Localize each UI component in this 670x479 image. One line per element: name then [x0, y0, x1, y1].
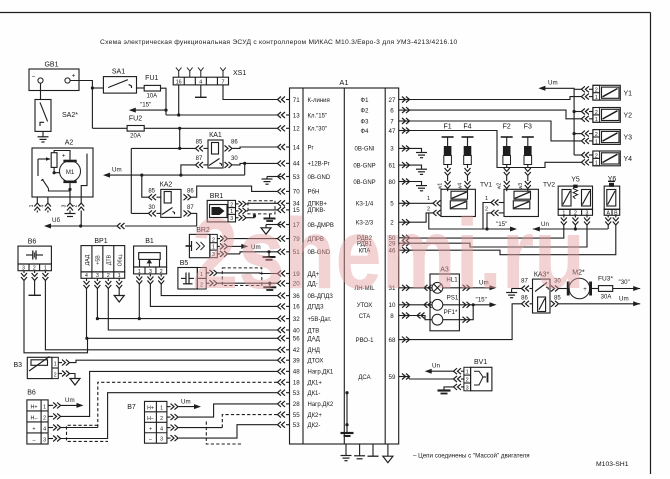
svg-text:3: 3: [466, 385, 469, 391]
BR1 shield dashed box: [248, 201, 275, 214]
wire BV1-1 Un arrow: [431, 370, 454, 372]
B5 shield ground: [269, 283, 271, 287]
Um fuel rail bus: [544, 88, 575, 155]
svg-text:85: 85: [148, 188, 155, 194]
svg-text:0В-GNP: 0В-GNP: [353, 163, 375, 169]
svg-text:ДТВ: ДТВ: [107, 254, 113, 265]
svg-text:В6: В6: [28, 239, 37, 246]
svg-text:0В-GNP: 0В-GNP: [353, 180, 375, 186]
svg-text:2: 2: [54, 372, 57, 378]
wire KZ-2/3 to TV1-2: [409, 213, 433, 222]
B6 pin chevrons: [23, 271, 25, 273]
border frame top line: [0, 12, 651, 14]
A1 right pin rows: labels, numbers and exit chevrons: [353, 97, 409, 381]
svg-text:Un: Un: [432, 363, 440, 370]
spark plug F4: [458, 124, 474, 190]
A2 pin stubs and chevrons: [36, 197, 38, 203]
A1 bottom ground mass bar symbol: [372, 444, 374, 456]
svg-text:40: 40: [293, 327, 300, 334]
svg-text:20А: 20А: [130, 134, 141, 140]
wire B1 pin2 to pin 36: [161, 284, 278, 296]
idle regulator Y5: [558, 186, 592, 209]
svg-text:48: 48: [293, 369, 300, 376]
svg-text:53: 53: [293, 174, 300, 181]
svg-text:4: 4: [199, 79, 202, 85]
ignition switch SA1: [103, 77, 136, 94]
svg-text:Ф3: Ф3: [361, 119, 370, 125]
svg-text:GB1: GB1: [44, 62, 58, 69]
svg-text:1: 1: [595, 117, 598, 123]
wire FU2 to pin 12: [144, 127, 278, 129]
wire B6 pin2 to bar ground: [34, 281, 36, 296]
wire B6 heater Um arrow: [61, 404, 78, 406]
svg-text:2: 2: [43, 415, 46, 421]
wire TV2-2 drop: [487, 213, 491, 229]
svg-text:Y6: Y6: [608, 176, 617, 183]
15 arrow right: [510, 227, 517, 232]
knock sensor B5: [178, 268, 197, 290]
wire KA2-30 drop: [130, 148, 132, 213]
mass ground on 51 wire: [268, 252, 270, 257]
svg-text:Ф1: Ф1: [361, 98, 370, 104]
svg-text:ТV1: ТV1: [480, 182, 492, 189]
svg-text:BV1: BV1: [474, 359, 487, 366]
wire B3-2 to chassis ground: [70, 374, 75, 379]
svg-text:0В-GND: 0В-GND: [308, 175, 331, 181]
node 15 branch: [164, 109, 167, 112]
svg-text:+: +: [62, 154, 66, 160]
svg-text:XS1: XS1: [233, 70, 246, 77]
connector XS1: [173, 77, 228, 85]
svg-text:2shemi.ru: 2shemi.ru: [192, 198, 585, 310]
wire Y5-3 to RDV1 pin 29: [409, 225, 587, 247]
svg-text:SA1: SA1: [112, 69, 125, 76]
svg-text:Н–: Н–: [147, 416, 154, 422]
wire KA2-30 from 30-feed: [131, 212, 148, 214]
svg-text:ДК1+: ДК1+: [308, 381, 323, 387]
B3 chevrons: [58, 362, 62, 364]
svg-text:56: 56: [293, 336, 300, 343]
wire F1 phase to Y1: [409, 97, 581, 100]
svg-text:39: 39: [293, 358, 300, 365]
svg-text:В7: В7: [127, 404, 136, 411]
svg-text:53: 53: [293, 422, 300, 429]
Y5 pin chevrons: [563, 215, 565, 217]
BR1 shield ground: [269, 214, 271, 219]
svg-text:2: 2: [595, 88, 598, 94]
svg-text:Ф4: Ф4: [361, 129, 370, 135]
svg-text:4: 4: [39, 204, 45, 207]
svg-text:– Цепи соединены с "Массой: – Цепи соединены с "Массой" двигателя: [413, 453, 530, 460]
A1 bottom ground earth symbol 1: [345, 444, 347, 456]
B5 shield dashed box: [222, 268, 261, 286]
relay KA1: [208, 140, 223, 168]
switch SA2*: [40, 83, 42, 99]
svg-text:Um: Um: [548, 80, 558, 87]
injector Y3: [581, 130, 632, 146]
controller A1 box: [290, 88, 399, 444]
svg-text:ДТОХ: ДТОХ: [308, 359, 324, 365]
svg-text:85: 85: [196, 140, 203, 146]
svg-text:1: 1: [54, 361, 57, 367]
fuse FU3* 30A: [599, 286, 613, 292]
svg-text:FU1: FU1: [145, 75, 158, 82]
svg-text:12: 12: [293, 126, 300, 133]
wire 87 to earth: [512, 288, 522, 290]
B3 thermistor symbol: [31, 360, 48, 366]
purge valve Y6: [604, 186, 620, 209]
node shield earth on 51 wire: [267, 250, 270, 253]
wire BP1 pin4 DAD down: [86, 289, 88, 339]
wire KZ-1/4 to TV1-1: [409, 202, 433, 204]
svg-text:6: 6: [390, 107, 394, 114]
wire B6 plus to pin 18 (shielded): [61, 427, 67, 429]
svg-text:18: 18: [293, 380, 300, 387]
svg-text:14: 14: [293, 144, 300, 151]
node Um source on pin44 wire: [243, 162, 246, 165]
svg-text:+: +: [149, 426, 152, 432]
svg-text:В1: В1: [145, 238, 154, 245]
wire 30-feed from FU2 line down to KA1-85 / KA2-30: [179, 128, 181, 148]
svg-text:3: 3: [390, 146, 394, 153]
wire Y5-2 to Un line: [574, 225, 576, 229]
wire B5-1 to pin 19: [222, 272, 278, 275]
svg-text:РбН: РбН: [308, 190, 320, 196]
svg-text:РВО-1: РВО-1: [356, 338, 374, 344]
crankshaft sensor BR1: [207, 200, 235, 222]
wire pin 53 to earth: [267, 176, 281, 178]
svg-text:ДК2-: ДК2-: [308, 423, 321, 429]
svg-text:ДТВ: ДТВ: [308, 328, 320, 334]
wire BR2-3 to pin 51: [228, 253, 240, 255]
wire HL1 to Um arrow: [443, 287, 491, 289]
wire 85 to Um arrow: [559, 303, 640, 305]
earth ground pin 80 GNP: [409, 182, 422, 186]
svg-text:80: 80: [389, 179, 396, 186]
wire B7 minus to pin 53b: [179, 425, 279, 438]
svg-text:0В-GNI: 0В-GNI: [354, 147, 374, 153]
wire B6 H- to pin 48: [61, 371, 278, 416]
wire BR1-2 to pin 34: [248, 202, 278, 204]
wire 15 arrow branch: [134, 109, 166, 111]
wire BR1-1 to pin 15: [248, 209, 278, 211]
svg-text:Нагр.ДК1: Нагр.ДК1: [308, 370, 334, 376]
battery GB1: [29, 69, 79, 91]
ground under A2 pin3: [69, 211, 71, 214]
XS1 antenna pins: [176, 68, 182, 78]
svg-text:+: +: [72, 73, 76, 80]
wire B7 H- to pin 28: [179, 404, 279, 417]
BR2 chevrons: [217, 238, 220, 240]
wire M2 to FU3: [590, 288, 599, 290]
earth ground KA3-87: [511, 289, 513, 293]
wire PS1 to 15 arrow: [443, 304, 491, 306]
svg-text:2: 2: [73, 204, 79, 207]
svg-text:28: 28: [293, 401, 300, 408]
svg-text:В6: В6: [27, 390, 36, 397]
chassis ground under BP1 pin1: [118, 289, 120, 296]
svg-text:30: 30: [231, 156, 238, 162]
wire KA2-85 up to Um bus: [142, 175, 149, 197]
svg-text:"30": "30": [619, 279, 630, 286]
node PF1 join: [472, 303, 475, 306]
wire XS1 pin7 to pin 71 K-line: [223, 85, 278, 100]
svg-text:87: 87: [196, 156, 203, 162]
svg-text:Схема электрическая функцион: Схема электрическая функциональная ЭСУД …: [100, 39, 457, 46]
svg-text:Ф2: Ф2: [361, 108, 370, 114]
wire Y5-1 to RDV2 pin 50: [409, 225, 564, 238]
pressure sensor BP1: [81, 246, 125, 272]
node KA1-87 on Um bus: [179, 174, 182, 177]
oxygen sensor B7 (lambda 2): [145, 401, 167, 443]
svg-text:М103-SH1: М103-SH1: [596, 461, 629, 468]
svg-text:47: 47: [389, 128, 396, 135]
wire to pin 13: [166, 114, 278, 116]
injector Y4: [581, 151, 632, 167]
svg-text:w4: w4: [458, 183, 464, 190]
wire pin 31 to HL1: [409, 287, 432, 289]
wire B6 minus to pin 53: [61, 393, 278, 439]
spark plug F2: [497, 124, 513, 190]
svg-text:Y3: Y3: [624, 135, 633, 142]
B6 shield dashed box: [67, 425, 109, 441]
svg-text:Uб: Uб: [52, 217, 60, 224]
earth ground pin 3 GNI: [409, 148, 422, 152]
B5 piezo symbol: [181, 277, 186, 279]
wire F3 phase to Y3: [409, 121, 581, 141]
chassis ground for 0V-DMRV: [265, 225, 267, 228]
svg-text:w3: w3: [518, 183, 524, 190]
oxygen sensor B6 (lambda 1): [27, 400, 48, 444]
BR1 sensor symbol: [212, 207, 225, 215]
node B5 shield ground tap: [268, 282, 271, 285]
A2 arrow into regulator: [38, 158, 50, 160]
border frame right line: [650, 13, 652, 475]
svg-text:–: –: [149, 437, 152, 443]
svg-text:ДНД: ДНД: [308, 348, 320, 354]
node Y5-2 on Un line: [574, 227, 577, 230]
wire B7 heater Um arrow: [179, 406, 196, 408]
wire lambda ground vertical: [346, 393, 348, 433]
svg-text:3: 3: [160, 437, 163, 443]
wire 86 to pin 68 RVO-1: [409, 304, 522, 340]
wire BP1 pin3 +5V down: [96, 289, 98, 319]
wire Um bus drop: [244, 163, 246, 175]
svg-text:"15": "15": [140, 102, 151, 109]
svg-text:16: 16: [176, 79, 182, 85]
svg-text:ДК1-: ДК1-: [308, 391, 321, 397]
node DAD join: [85, 337, 88, 340]
B5 chevrons: [206, 272, 209, 274]
ground under XS1 pin4: [200, 85, 202, 97]
ignition coil ТV1: [441, 182, 492, 217]
svg-text:2: 2: [595, 153, 598, 159]
throttle sensor B1: [134, 246, 167, 267]
ground earth for 0V-GND pin 53: [266, 177, 268, 180]
svg-text:Нагр.ДК2: Нагр.ДК2: [308, 402, 334, 408]
node KA2-85 on Um bus: [140, 174, 143, 177]
svg-text:8: 8: [390, 313, 394, 320]
wire BV1-3 to mass: [444, 387, 454, 391]
A2 regulator resistor: [51, 153, 57, 168]
wire B1 pin1 to +5V line: [138, 284, 140, 319]
svg-text:10А: 10А: [146, 94, 157, 100]
svg-text:–: –: [33, 437, 36, 443]
node B1 on +5V line: [138, 317, 141, 320]
wire FU3 to 30 arrow: [613, 288, 641, 290]
A2 internal switch contact: [42, 179, 48, 189]
svg-text:SA2*: SA2*: [62, 112, 78, 119]
svg-text:1: 1: [595, 161, 598, 167]
B1 pin chevrons: [138, 274, 140, 277]
fuse FU2 20A: [127, 126, 144, 132]
svg-text:7: 7: [390, 118, 394, 125]
svg-text:71: 71: [293, 97, 300, 104]
wire B5-2 to pin 20: [222, 282, 278, 284]
svg-text:ДК2+: ДК2+: [308, 413, 323, 419]
svg-text:F1: F1: [444, 124, 452, 131]
svg-text:2: 2: [160, 416, 163, 422]
wire BR2-1 Um arrow: [228, 245, 243, 247]
generator unit A2 box: [32, 148, 93, 197]
svg-text:ТV2: ТV2: [543, 182, 555, 189]
svg-text:61: 61: [389, 162, 396, 169]
svg-text:М1: М1: [66, 170, 75, 176]
svg-text:Кл."15": Кл."15": [308, 113, 328, 119]
svg-text:Н+: Н+: [147, 405, 154, 411]
speed sensor BV1: [464, 367, 471, 391]
wire TV2-1 drop: [483, 203, 491, 230]
svg-text:Н–: Н–: [31, 415, 38, 421]
wire KA1-30 to pin 44: [236, 163, 278, 165]
A2 internal wires: [54, 167, 59, 172]
svg-text:ДАД: ДАД: [308, 337, 320, 343]
svg-text:1: 1: [29, 204, 35, 207]
svg-text:FU3*: FU3*: [598, 276, 613, 283]
svg-text:Общ.: Общ.: [118, 254, 124, 267]
wire TV1-2 branch down to 15 line: [429, 213, 512, 229]
injector Y1: [581, 85, 632, 101]
svg-text:А2: А2: [65, 140, 74, 147]
BV1 chevrons: [454, 368, 462, 374]
A1 bottom ground 2-bar symbol: [359, 444, 361, 456]
KA2 chevrons: [149, 194, 157, 200]
svg-text:44: 44: [293, 161, 300, 168]
svg-text:F2: F2: [503, 124, 511, 131]
wire junction to SA1: [92, 87, 103, 89]
svg-text:Um: Um: [181, 399, 191, 406]
svg-text:30А: 30А: [601, 294, 612, 300]
svg-text:В5: В5: [180, 260, 189, 267]
svg-text:К-линия: К-линия: [308, 98, 330, 104]
svg-text:86: 86: [231, 140, 238, 146]
Un arrow to valve bus: [533, 227, 540, 232]
spark plug F3: [518, 124, 534, 190]
wire Um bus to arrow: [108, 174, 245, 176]
node +5V at BP1: [96, 317, 99, 320]
svg-text:Um: Um: [112, 167, 122, 174]
svg-text:+5В-Дат.: +5В-Дат.: [308, 317, 332, 323]
wire A2 pin2 down to Ub line: [80, 211, 82, 227]
svg-text:Y4: Y4: [624, 156, 633, 163]
svg-text:F3: F3: [524, 124, 532, 131]
svg-text:Y1: Y1: [624, 90, 633, 97]
wire GB1 plus to SA1 junction: [70, 81, 92, 89]
motor M2*: [559, 288, 568, 290]
node A2 pin2 on Ub line: [79, 224, 82, 227]
Y6 pin chevrons: [607, 215, 609, 217]
svg-text:7: 7: [222, 79, 225, 85]
wire BR1-3 shield stub: [248, 217, 255, 219]
BP1 pin chevrons: [86, 278, 88, 281]
svg-text:53: 53: [293, 390, 300, 397]
svg-text:4: 4: [160, 426, 163, 432]
svg-text:Кл."30": Кл."30": [308, 127, 328, 133]
earth ground pin 61 GNP: [409, 165, 422, 169]
svg-text:55: 55: [293, 412, 300, 419]
svg-text:30: 30: [148, 205, 155, 211]
wire pin 17 to triangle ground: [266, 224, 281, 226]
svg-text:3: 3: [43, 437, 46, 443]
mass ground BV1: [438, 389, 451, 391]
instrument unit A3 box: [430, 274, 459, 331]
wire Y6-B to KPA pin 46: [409, 225, 616, 255]
svg-text:+5В: +5В: [96, 255, 102, 265]
A1 left pin rows: numbers, labels and entry chevrons: [278, 97, 334, 430]
svg-text:3: 3: [62, 204, 68, 207]
wire B6 pin1 to pin 42 DND: [45, 281, 278, 350]
wire KA1 85 line: [131, 147, 195, 149]
wire KA2-87 to Ub line: [125, 213, 197, 226]
svg-text:FU2: FU2: [129, 116, 142, 123]
wire FU1 to K15 vertical: [161, 88, 167, 115]
wire to FU2: [92, 127, 127, 129]
ground under SA2: [42, 131, 44, 136]
wire BP1 pin2 DTV down: [108, 289, 278, 331]
svg-text:+: +: [32, 426, 35, 432]
wire battery junction down to FU2: [91, 88, 93, 128]
node on pin12 line: [178, 127, 181, 130]
B7 lambda chevrons: [167, 406, 171, 408]
wire B6 pin3 down to DAD join: [24, 281, 88, 353]
svg-text:1: 1: [43, 404, 46, 410]
svg-text:1: 1: [466, 370, 469, 376]
fuse FU1 10A: [144, 85, 160, 91]
wire F4 phase to Y4: [409, 131, 581, 168]
svg-text:59: 59: [389, 374, 396, 381]
BR2 hall symbol: [186, 245, 192, 247]
wire B7 plus to pin 55 (shielded): [179, 427, 223, 429]
svg-text:Um: Um: [619, 296, 629, 303]
relay KA2: [161, 189, 181, 217]
wire +5V-Dat to pin 32: [97, 318, 278, 320]
wire pin 10 to PS1: [409, 304, 432, 306]
wire B3-1 to pin 39 DTOX: [70, 360, 278, 362]
svg-text:СТА: СТА: [359, 314, 371, 320]
svg-text:ДСА: ДСА: [358, 375, 370, 381]
spark plug F1: [438, 124, 454, 190]
BV1 hall symbol: [474, 371, 483, 385]
wire KA1-87 down to Um bus: [181, 165, 196, 175]
wire pin 8 to PF1: [409, 316, 432, 320]
svg-text:1: 1: [595, 139, 598, 145]
wire SA1 to FU1: [137, 87, 145, 89]
svg-text:2: 2: [466, 377, 469, 383]
B6 lambda chevrons: [48, 404, 53, 406]
node XS1-16 junction: [177, 113, 180, 116]
svg-text:Y2: Y2: [624, 113, 633, 120]
wire DAD to pin 56: [87, 337, 279, 339]
